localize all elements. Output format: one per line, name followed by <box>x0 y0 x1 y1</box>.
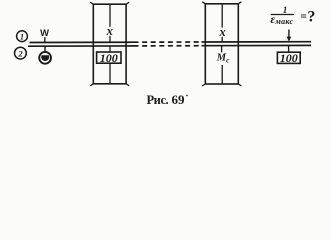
svg-text:1: 1 <box>283 5 288 15</box>
wire: block 1 centre line (lower) <box>109 63 111 84</box>
motor M (circle with filled rotor) <box>39 46 51 64</box>
wire: upper shaft line, left solid segment <box>30 41 134 43</box>
node 1 (circled shaft label) <box>17 31 28 42</box>
svg-text:100: 100 <box>100 51 118 65</box>
wire: tick from lower shaft to right box <box>288 46 290 52</box>
wire: tick under W on upper shaft <box>44 37 46 42</box>
label 1/eps-max = ? (question expression) <box>270 5 315 26</box>
wire: upper shaft line, right solid segment <box>202 41 312 43</box>
wire: fraction bar <box>271 14 294 16</box>
svg-text:W: W <box>40 27 49 38</box>
value box 100 (block 1) <box>97 51 121 65</box>
svg-text:2: 2 <box>18 50 23 59</box>
block frame 1 (elastic link section) <box>90 2 129 86</box>
wire: block 1 tick from x to upper shaft <box>109 36 111 42</box>
node 2 (circled shaft label) <box>15 47 27 59</box>
block frame 2 (elastic link section) <box>202 2 241 86</box>
arrow to upper shaft <box>287 30 292 42</box>
svg-text:?: ? <box>307 9 315 26</box>
svg-text:100: 100 <box>280 51 298 65</box>
wire: block 1 tick from lower shaft to box <box>109 46 111 52</box>
speck after caption <box>186 95 188 97</box>
svg-text:x: x <box>106 24 113 38</box>
wire: lower shaft line, dashed middle segment <box>134 45 202 47</box>
value box 100 (right) <box>277 51 300 65</box>
wire: lower shaft line, right solid segment <box>202 44 312 46</box>
svg-text:1: 1 <box>20 33 24 42</box>
wire: block 2 tick from lower shaft to Mc <box>221 46 223 53</box>
wire: block 1 centre line (upper) <box>109 4 111 27</box>
wire: upper shaft line, dashed middle segment <box>134 41 202 43</box>
wire: lower shaft line, left solid segment <box>28 45 134 47</box>
wire: block 2 centre line (lower) <box>221 65 223 84</box>
svg-text:69: 69 <box>172 92 186 107</box>
wire: block 2 centre line (upper) <box>221 4 223 28</box>
svg-text:Рис.: Рис. <box>147 93 169 107</box>
wire: block 2 tick from x to upper shaft <box>221 37 223 42</box>
svg-text:=: = <box>300 11 307 23</box>
